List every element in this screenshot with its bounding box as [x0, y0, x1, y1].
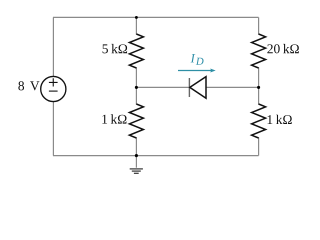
wire 1k-left bottom stem	[135, 137, 137, 155]
wire right vertical bottom stem	[258, 137, 260, 155]
wire ground stem	[135, 156, 137, 168]
wire 1k-left top stem	[135, 87, 137, 104]
node dot middle right	[257, 86, 260, 89]
wire top rail	[53, 16, 259, 18]
label I_D	[191, 54, 196, 62]
label 20 kOhm	[267, 44, 298, 53]
wire right vertical middle	[258, 67, 260, 104]
node dot bottom	[135, 154, 138, 157]
voltage source V1 circle	[41, 76, 66, 101]
wire middle left of diode	[136, 86, 188, 88]
label 1 kOhm right	[268, 115, 292, 124]
resistor R4 1k right zigzag	[252, 104, 266, 138]
voltage source plus sign	[49, 78, 58, 86]
wire left vertical above source	[52, 17, 54, 76]
wire middle right of diode	[206, 86, 258, 88]
wire 5k top stem	[135, 17, 137, 34]
node dot top	[135, 16, 138, 19]
node dot middle left	[135, 86, 138, 89]
label 1 kOhm left	[102, 114, 126, 123]
diode D1 triangle	[190, 77, 206, 99]
resistor R2 20k zigzag	[252, 34, 266, 68]
current arrow I_D	[178, 68, 216, 72]
wire right vertical top stem	[258, 17, 260, 34]
wire left vertical below source	[52, 102, 54, 156]
wire bottom rail	[53, 155, 259, 157]
resistor R3 1k left zigzag	[129, 104, 143, 138]
diode D1 cathode bar	[188, 78, 190, 97]
voltage source minus sign	[49, 90, 58, 92]
resistor R1 5k zigzag	[129, 34, 143, 68]
ground	[130, 169, 143, 173]
wire 5k bottom stem	[135, 67, 137, 87]
label 5 kOhm	[103, 44, 128, 53]
label 8 V	[18, 81, 39, 90]
